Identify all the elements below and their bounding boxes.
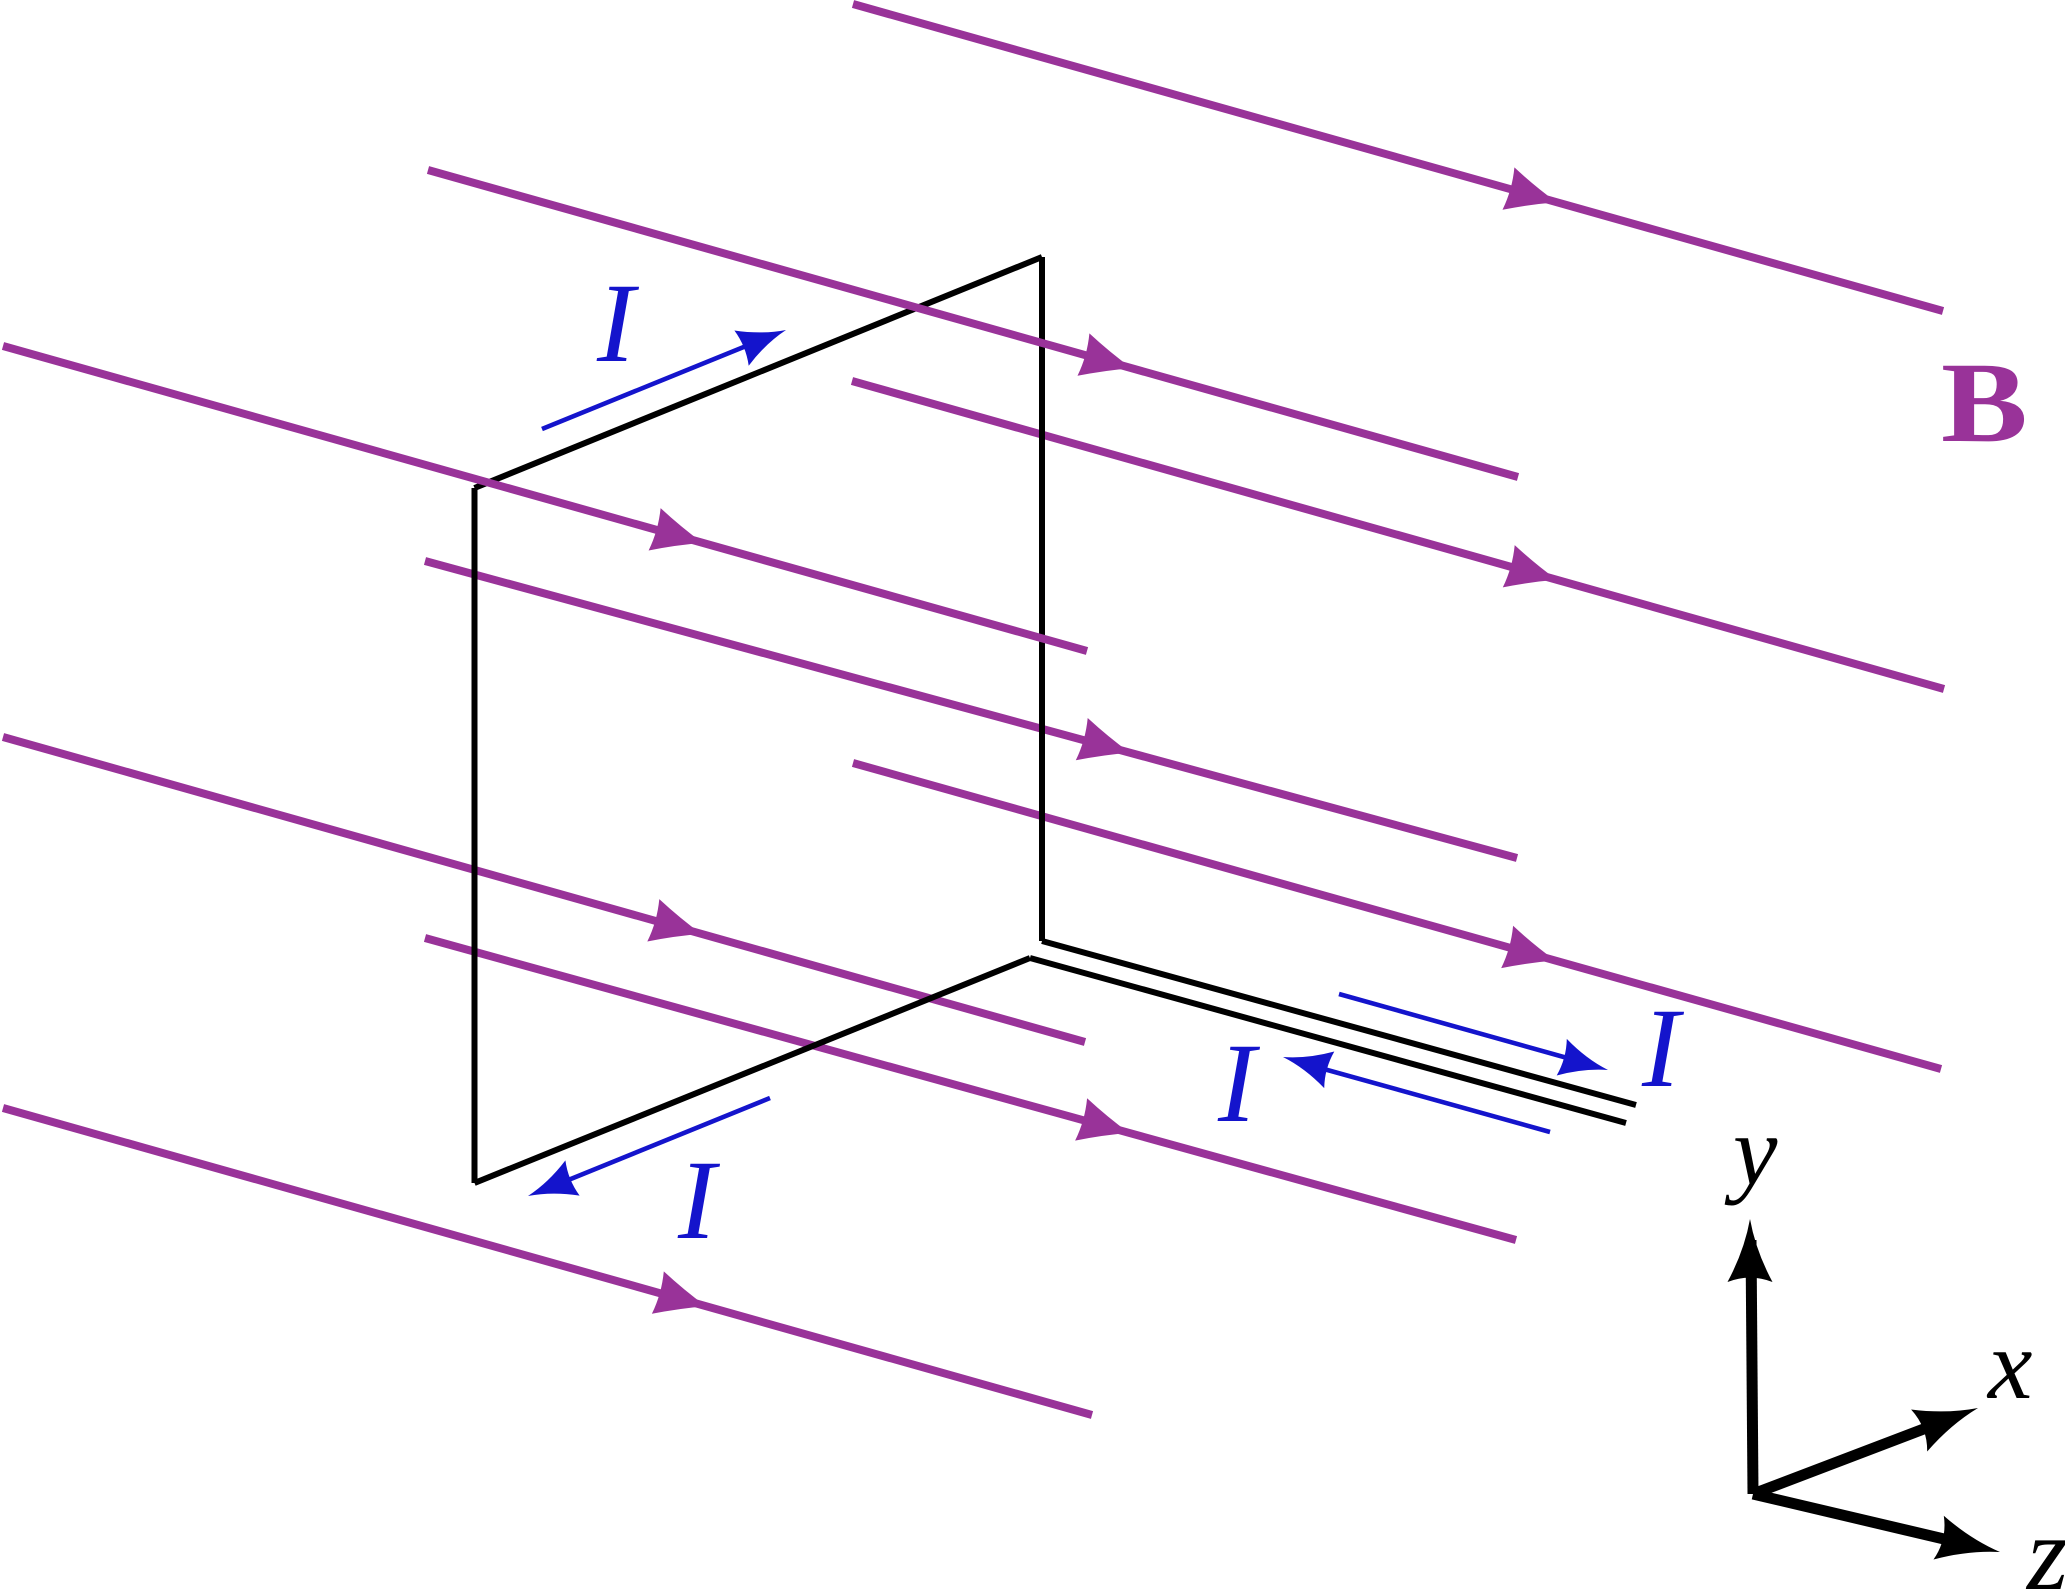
coordinate axes: y axis (1751, 1240, 1753, 1494)
field line BE (425, 561, 1517, 858)
current loop: top edge (475, 257, 1043, 488)
svg-text:I: I (596, 261, 640, 386)
field line BG arrowhead (1501, 926, 1555, 968)
field line BH3 arrowhead (652, 1271, 706, 1313)
coordinate axes: x axis (1753, 1429, 1925, 1495)
current loop: bottom edge (475, 958, 1031, 1183)
current arrow I on lower lead wire (1313, 1066, 1550, 1132)
field line BH2 arrowhead (1075, 1098, 1129, 1140)
field line BA (853, 4, 1943, 311)
field line BD arrowhead (1503, 545, 1557, 587)
field line BF arrowhead (647, 899, 701, 941)
lead wire upper (1042, 941, 1636, 1105)
svg-text:I: I (1217, 1021, 1261, 1146)
field line BC (3, 346, 1087, 651)
field line BA arrowhead (1503, 167, 1557, 209)
field line BD (852, 381, 1944, 689)
field line BC arrowhead (649, 508, 703, 550)
svg-text:x: x (1986, 1309, 2032, 1420)
field line BH2 (425, 938, 1516, 1240)
coordinate axes: z axis (1753, 1494, 1944, 1539)
current loop: left edge (472, 488, 478, 1183)
svg-text:I: I (677, 1138, 721, 1263)
svg-text:y: y (1724, 1095, 1778, 1206)
field line BF (3, 737, 1085, 1042)
current loop: right edge (1039, 257, 1045, 941)
svg-text:z: z (2025, 1495, 2065, 1591)
lead wire lower (1030, 958, 1626, 1123)
field line BB arrowhead (1078, 333, 1132, 375)
field line BH3 (3, 1108, 1092, 1415)
field line BE arrowhead (1076, 718, 1130, 760)
current arrow I on upper lead wire (1339, 994, 1578, 1061)
current arrow I on bottom edge (556, 1098, 770, 1185)
field line BG (853, 763, 1941, 1069)
svg-text:B: B (1941, 339, 2028, 466)
current arrow I on top edge (542, 342, 756, 429)
field line BB (428, 170, 1518, 477)
svg-text:I: I (1641, 986, 1685, 1111)
